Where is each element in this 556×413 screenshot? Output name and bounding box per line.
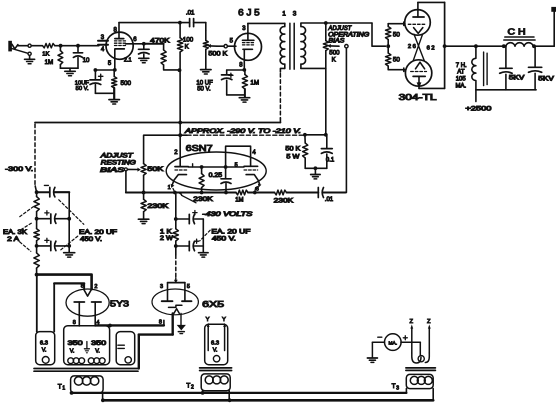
svg-text:5: 5 bbox=[187, 284, 190, 290]
svg-text:2 A: 2 A bbox=[7, 237, 19, 243]
svg-text:10 UF: 10 UF bbox=[196, 80, 213, 86]
svg-text:6SN7: 6SN7 bbox=[186, 143, 213, 153]
svg-text:3: 3 bbox=[293, 11, 297, 18]
svg-text:5: 5 bbox=[230, 39, 234, 45]
svg-text:MA.: MA. bbox=[389, 340, 398, 346]
svg-text:RESTING: RESTING bbox=[101, 161, 136, 167]
svg-text:6 2: 6 2 bbox=[427, 45, 435, 51]
svg-text:5: 5 bbox=[235, 163, 238, 169]
svg-text:3: 3 bbox=[396, 385, 399, 391]
svg-text:-430 VOLTS: -430 VOLTS bbox=[202, 212, 252, 218]
svg-text:304-TL: 304-TL bbox=[399, 92, 437, 102]
svg-text:Z: Z bbox=[427, 319, 431, 325]
svg-text:.01: .01 bbox=[186, 10, 195, 17]
svg-text:4: 4 bbox=[101, 47, 105, 53]
svg-text:K: K bbox=[332, 56, 337, 63]
svg-text:V.: V. bbox=[42, 348, 47, 354]
svg-text:1M: 1M bbox=[235, 198, 243, 204]
svg-text:ADJUST: ADJUST bbox=[327, 26, 352, 32]
svg-text:T: T bbox=[58, 383, 62, 390]
svg-text:Y: Y bbox=[222, 317, 226, 323]
svg-text:5: 5 bbox=[108, 61, 112, 67]
svg-text:6 J 5: 6 J 5 bbox=[238, 7, 260, 17]
svg-text:1: 1 bbox=[168, 185, 171, 191]
svg-text:1M: 1M bbox=[250, 79, 259, 86]
svg-text:105: 105 bbox=[456, 76, 467, 82]
svg-text:450 V.: 450 V. bbox=[80, 237, 102, 243]
svg-text:V.: V. bbox=[95, 349, 100, 355]
svg-text:T: T bbox=[392, 383, 396, 390]
svg-text:5 W: 5 W bbox=[286, 155, 299, 161]
svg-text:450 V.: 450 V. bbox=[212, 237, 236, 243]
svg-text:4: 4 bbox=[252, 150, 256, 156]
svg-text:500: 500 bbox=[121, 80, 132, 87]
svg-text:APPROX. -290 V. TO -210 V.: APPROX. -290 V. TO -210 V. bbox=[184, 129, 301, 135]
svg-text:5Y3: 5Y3 bbox=[110, 300, 130, 309]
svg-text:T: T bbox=[186, 382, 190, 389]
svg-text:2: 2 bbox=[191, 385, 194, 391]
svg-text:6: 6 bbox=[133, 37, 137, 43]
svg-text:350: 350 bbox=[68, 341, 84, 347]
svg-text:1: 1 bbox=[282, 11, 286, 18]
svg-text:10: 10 bbox=[83, 57, 90, 64]
svg-text:1 K: 1 K bbox=[160, 230, 172, 236]
svg-text:2.1: 2.1 bbox=[124, 57, 132, 63]
svg-text:50K: 50K bbox=[147, 167, 163, 173]
svg-text:50 V.: 50 V. bbox=[197, 87, 211, 93]
svg-text:1: 1 bbox=[62, 386, 65, 392]
svg-text:EA. 20 UF: EA. 20 UF bbox=[211, 230, 250, 236]
svg-text:3: 3 bbox=[160, 284, 163, 290]
svg-text:V.: V. bbox=[213, 348, 218, 354]
svg-text:6: 6 bbox=[256, 186, 259, 192]
svg-text:K: K bbox=[185, 44, 190, 51]
svg-text:.01: .01 bbox=[325, 197, 334, 203]
svg-text:6.3: 6.3 bbox=[40, 340, 48, 346]
svg-text:50: 50 bbox=[393, 31, 401, 38]
svg-text:1K: 1K bbox=[42, 52, 49, 58]
svg-text:2 6: 2 6 bbox=[408, 44, 416, 50]
svg-text:2: 2 bbox=[174, 150, 178, 156]
svg-text:EA. 20 UF: EA. 20 UF bbox=[79, 230, 117, 236]
svg-text:-300 V.: -300 V. bbox=[5, 166, 33, 173]
svg-text:Y: Y bbox=[206, 317, 210, 323]
svg-text:500 K: 500 K bbox=[208, 51, 228, 58]
svg-text:BIAS: BIAS bbox=[100, 168, 124, 174]
svg-text:50: 50 bbox=[393, 56, 401, 63]
svg-text:230K: 230K bbox=[147, 204, 168, 210]
svg-text:350: 350 bbox=[91, 341, 107, 347]
svg-text:8: 8 bbox=[239, 63, 243, 69]
svg-text:230K: 230K bbox=[274, 199, 294, 205]
svg-text:EA. 3K: EA. 3K bbox=[3, 230, 27, 236]
svg-text:5KV: 5KV bbox=[509, 76, 525, 82]
svg-text:BIAS: BIAS bbox=[328, 38, 344, 44]
svg-text:3: 3 bbox=[242, 26, 246, 32]
svg-text:7 H.: 7 H. bbox=[456, 63, 467, 69]
svg-text:1M: 1M bbox=[45, 59, 54, 66]
svg-text:+2500: +2500 bbox=[465, 105, 492, 112]
svg-text:50 K: 50 K bbox=[285, 147, 300, 153]
svg-text:V.: V. bbox=[70, 349, 75, 355]
svg-text:Z: Z bbox=[410, 319, 414, 325]
svg-text:C H: C H bbox=[508, 27, 526, 36]
svg-text:50 V.: 50 V. bbox=[76, 86, 89, 92]
svg-text:AT: AT bbox=[457, 70, 465, 76]
svg-text:MA.: MA. bbox=[456, 84, 467, 90]
svg-text:6X5: 6X5 bbox=[202, 299, 224, 309]
svg-text:2 W: 2 W bbox=[160, 236, 173, 242]
svg-text:ADJUST: ADJUST bbox=[99, 153, 134, 159]
svg-text:6.3: 6.3 bbox=[211, 340, 219, 346]
svg-text:0.1: 0.1 bbox=[326, 158, 335, 164]
svg-text:5KV: 5KV bbox=[538, 77, 554, 83]
svg-text:470K: 470K bbox=[150, 37, 171, 44]
